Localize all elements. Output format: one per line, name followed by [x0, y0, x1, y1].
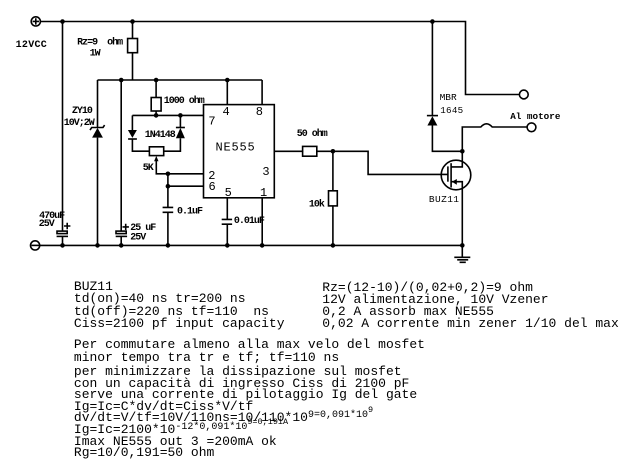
diode D1 1N4148 left (down): [128, 115, 149, 151]
svg-text:Al motore: Al motore: [510, 111, 561, 122]
wire 25uF branch lower: [120, 236, 122, 245]
resistor Rz 9 ohm: [128, 39, 138, 53]
node rail2 / 1000 ohm branch: [154, 78, 159, 83]
node rail2 / pin4: [225, 78, 230, 83]
notes block 1 right: [322, 282, 533, 294]
wire pin7 line: [132, 114, 203, 116]
resistor 1000 ohm: [151, 98, 161, 112]
resistor 10k: [329, 191, 338, 206]
wire 25uF branch upper: [120, 80, 122, 231]
svg-text:Rz=9 ohm: Rz=9 ohm: [77, 37, 123, 49]
wire output2 with hop: [462, 124, 527, 152]
wire 470uF branch lower: [62, 236, 64, 245]
wire pin5 upper: [226, 198, 228, 220]
plus supply terminal: [31, 17, 40, 26]
ground rail nodes: [60, 243, 464, 248]
wire MBR branch lower: [432, 126, 462, 152]
zener diode ZY10: [90, 125, 105, 138]
capacitor C 0.1uF: [163, 207, 174, 212]
node pin2 / 0.1uF branch: [166, 172, 171, 177]
node pin7 / right diode: [178, 113, 183, 118]
diode D2 1N4148 right (up): [164, 115, 185, 151]
capacitor C 25uF: [116, 224, 129, 237]
svg-text:5: 5: [225, 186, 232, 200]
svg-text:5K: 5K: [143, 163, 154, 174]
svg-text:25V: 25V: [130, 233, 146, 244]
wire 10k upper: [332, 151, 334, 191]
svg-text:10k: 10k: [309, 198, 325, 210]
wire Rz branch lower: [132, 53, 134, 80]
svg-text:8: 8: [256, 105, 263, 119]
svg-text:NE555: NE555: [216, 140, 256, 154]
wire 10k lower: [332, 206, 334, 246]
svg-text:4: 4: [223, 105, 230, 119]
wire pin4: [226, 80, 228, 105]
svg-text:6: 6: [209, 180, 216, 194]
wire pin6 line: [168, 185, 203, 187]
capacitor C 0.01uF: [222, 219, 232, 224]
potentiometer 5K: [149, 147, 163, 156]
wire 0.1uF branch lower: [167, 212, 169, 245]
wire pin3 out: [274, 150, 303, 152]
svg-text:1645: 1645: [440, 105, 463, 116]
wire rail 10V: [98, 79, 263, 81]
svg-text:1: 1: [260, 186, 267, 200]
node rail2 / 25uF branch: [119, 78, 124, 83]
resistor 50 ohm: [303, 146, 317, 156]
svg-text:50 ohm: 50 ohm: [297, 128, 328, 140]
svg-text:ZY10: ZY10: [72, 106, 93, 117]
svg-text:1N4148: 1N4148: [145, 130, 176, 141]
wire pin1: [261, 198, 263, 246]
node pin7 / 1000ohm: [154, 113, 159, 118]
capacitor C 470uF: [57, 223, 71, 237]
svg-text:MBR: MBR: [440, 92, 457, 103]
node top rail / Rz branch: [130, 19, 135, 24]
svg-text:0.1uF: 0.1uF: [177, 207, 203, 218]
notes block 2: [74, 339, 425, 351]
svg-text:3: 3: [262, 165, 269, 179]
wire top rail to output terminal 1: [40, 22, 519, 95]
node top rail / MBR branch: [430, 19, 435, 24]
wire 1000 ohm branch lower: [155, 111, 157, 115]
node pin6 / 0.1uF branch: [166, 184, 171, 189]
transistor Q1 BUZ11: [441, 151, 471, 245]
svg-text:25V: 25V: [39, 219, 55, 230]
svg-text:7: 7: [208, 115, 215, 129]
output terminal 2: [527, 123, 536, 132]
wire 50ohm to gate: [317, 151, 448, 174]
minus supply terminal: [30, 241, 39, 250]
wiper arrow 5K: [154, 156, 203, 174]
op IC U1 NE555 box: [204, 105, 275, 198]
wire MBR branch upper: [431, 22, 433, 116]
wire 0.1uF branch upper: [167, 174, 169, 208]
wire ground rail: [40, 244, 463, 246]
node top rail / 470uF branch: [60, 19, 65, 24]
svg-text:1W: 1W: [90, 48, 101, 59]
wire pin5 lower: [226, 224, 228, 245]
wire pin8: [261, 80, 263, 105]
ground symbol: [454, 245, 470, 262]
node 50ohm / 10k: [331, 149, 336, 154]
wire 470uF branch upper: [62, 22, 64, 232]
diode MBR 1645: [427, 116, 438, 126]
notes block 1 left: [74, 281, 113, 293]
wire 1000 ohm branch upper: [155, 80, 157, 98]
output terminal 1: [519, 90, 528, 99]
svg-text:10V;2W: 10V;2W: [64, 118, 95, 129]
svg-text:12VCC: 12VCC: [16, 40, 48, 51]
wire zener branch upper: [97, 80, 99, 128]
svg-text:1000 ohm: 1000 ohm: [164, 95, 205, 107]
node drain junction: [460, 149, 465, 154]
wire Rz branch upper: [132, 22, 134, 39]
svg-text:0.01uF: 0.01uF: [234, 216, 265, 227]
wire zener branch lower: [97, 138, 99, 246]
svg-text:BUZ11: BUZ11: [429, 194, 460, 205]
